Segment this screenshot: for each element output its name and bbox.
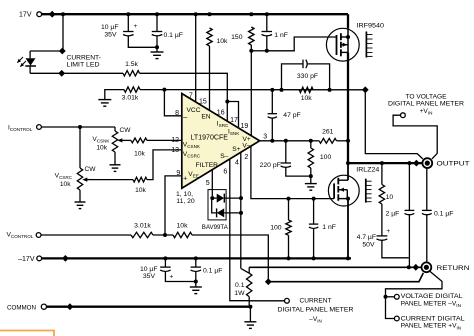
junction dot diode node A [210, 196, 214, 200]
svg-text:10k: 10k [177, 222, 189, 229]
svg-text:–17V: –17V [18, 256, 35, 263]
resistor R 0.1 1W shunt [247, 273, 252, 296]
svg-text:261: 261 [322, 129, 334, 136]
wire Q2 source lead [347, 199, 349, 259]
wire pin4 diag to shunt [241, 268, 249, 273]
wire 47pF top lead [271, 90, 273, 114]
capacitor C 4.7uF/50V [377, 235, 388, 237]
terminal CURRENT DPM+ [394, 316, 399, 321]
svg-text:3.01k: 3.01k [122, 94, 139, 101]
resistor R 3.01k (vctl) [131, 232, 153, 237]
svg-text:4: 4 [235, 159, 239, 166]
ground for VCSNK pot [114, 152, 116, 165]
resistor R 10k (pin12) [131, 138, 147, 143]
wire fb down right [365, 90, 423, 159]
wire branch to pin17 [227, 102, 238, 128]
svg-text:10k: 10k [96, 144, 107, 151]
wire LED cathode lead [29, 66, 31, 73]
svg-text:17: 17 [230, 117, 238, 124]
wire 3.01k to 10k [153, 234, 173, 236]
junction dot ICONTROL [78, 125, 82, 129]
Q1 source stroke [341, 36, 348, 38]
junction dot drain/R261 [346, 139, 350, 143]
svg-text:DIGITAL PANEL METER: DIGITAL PANEL METER [388, 101, 464, 108]
heatsink for Q2 [365, 179, 367, 203]
capacitor 1nF (gate) [309, 223, 318, 225]
capacitor 47pF [268, 113, 277, 115]
terminal ICONTROL [37, 125, 42, 130]
junction dot -17V Q2 source [346, 256, 350, 260]
junction dot rail/R-150 [249, 12, 253, 16]
junction dot gnd star [194, 280, 198, 284]
svg-text:OUTPUT: OUTPUT [437, 161, 470, 168]
resistor R 100 (sense) [308, 148, 313, 168]
svg-text:1 nF: 1 nF [322, 224, 336, 231]
wire 2uF column bottom [408, 214, 410, 267]
svg-text:8: 8 [175, 110, 179, 117]
wire shunt bottom [248, 297, 250, 307]
svg-text:COMMON: COMMON [7, 304, 36, 311]
svg-text:RETURN: RETURN [437, 265, 470, 272]
junction dot rail/C2 [155, 12, 159, 16]
svg-text:330 pF: 330 pF [297, 73, 318, 80]
wire pin9 to vcontrol node [165, 176, 182, 235]
wire LED column [62, 14, 64, 51]
junction dot 150 bottom [249, 49, 253, 53]
wire C 1nF top lead [266, 14, 268, 31]
capacitor C 1nF top [262, 31, 273, 33]
junction diamond on 17V rail [49, 11, 56, 18]
svg-text:100: 100 [320, 154, 332, 161]
Q2 source stroke [338, 198, 348, 200]
svg-text:2 µF: 2 µF [386, 210, 400, 217]
terminal 17V [37, 12, 42, 17]
svg-text:35V: 35V [143, 273, 156, 280]
wire 2uF column top [408, 163, 410, 210]
svg-text:1 nF: 1 nF [274, 32, 288, 39]
wire LED bottom horizontal [30, 72, 62, 74]
wire pin4 column [240, 153, 242, 269]
junction dot rail/LED column [61, 12, 65, 16]
wire pin6 column [230, 159, 249, 301]
capacitor C1 10uF/35V [123, 31, 134, 33]
svg-text:+: + [134, 23, 138, 30]
svg-text:+: + [170, 273, 174, 280]
junction dot 47pF bottom [270, 139, 274, 143]
wire R10k to pin12 [147, 139, 182, 141]
wire drain column x=348 [347, 14, 349, 28]
junction dot EN pins 16/17 [225, 100, 229, 104]
svg-text:10k: 10k [134, 150, 145, 157]
wire +17V top rail [42, 13, 348, 15]
wire to pin 8 [164, 90, 181, 116]
junction dot 220pF top [284, 139, 288, 143]
svg-text:PANEL METER +VIN: PANEL METER +VIN [401, 323, 461, 331]
capacitor 330pF [302, 60, 304, 69]
svg-text:10k: 10k [135, 187, 146, 194]
capacitor C2 0.1uF [152, 31, 163, 33]
junction diamond RETURN [412, 264, 419, 271]
svg-text:19: 19 [241, 123, 249, 130]
wire CSRC column [79, 127, 81, 168]
junction dot 330pF left [280, 88, 284, 92]
junction dot rail/pin7 [194, 12, 198, 16]
junction diamond OUTPUT [413, 160, 420, 167]
Q2 drain stroke [338, 179, 348, 181]
wire R261 to drain [337, 140, 349, 142]
wire snubber mid [381, 204, 383, 236]
potentiometer VCSNK 10k top lead [114, 127, 116, 131]
resistor R 10k (vctl) [173, 232, 192, 237]
svg-text:0.1 µF: 0.1 µF [164, 32, 183, 39]
svg-text:DIGITAL PANEL METER: DIGITAL PANEL METER [278, 307, 354, 314]
heatsink for Q1 [365, 32, 367, 58]
svg-text:CURRENT: CURRENT [300, 298, 332, 305]
wire to VOLTAGE DPM terminal [386, 296, 395, 298]
wire shunt top stub [248, 267, 250, 273]
junction dot 100 top [309, 139, 313, 143]
Q2 channel segments [337, 178, 339, 185]
wire ground row [268, 273, 423, 282]
wire 1nF row to gate [251, 50, 266, 52]
terminal VCONTROL [36, 233, 41, 238]
junction dot output/snubber [380, 161, 384, 165]
wire to R261 [311, 140, 319, 142]
wire C1 bottom lead [128, 35, 157, 47]
junction diamond LED bottom [58, 70, 65, 77]
wire wiper2 to R10k [94, 179, 133, 181]
svg-text:3: 3 [263, 134, 267, 141]
svg-text:6: 6 [223, 168, 227, 175]
wire C0.1uF low bottom [195, 271, 197, 282]
resistor R 100 (gate) lead [288, 199, 290, 220]
Q1 source dot [346, 35, 350, 39]
svg-text:S+: S+ [232, 146, 240, 153]
svg-text:IRF9540: IRF9540 [357, 22, 385, 29]
junction dot 1nF bottom [265, 49, 269, 53]
svg-text:0.1: 0.1 [235, 282, 245, 289]
ground COMMON [249, 307, 251, 322]
svg-text:4.7 µF: 4.7 µF [357, 234, 376, 241]
junction dot rail/C1 [126, 12, 130, 16]
junction diamond -17V [62, 255, 69, 262]
resistor R 10 snubber [379, 185, 384, 205]
resistor R 10k (pin15) [207, 28, 212, 46]
resistor R 100 (sense) lead [310, 141, 312, 148]
wire pin7 column [195, 14, 197, 102]
svg-text:S–: S– [220, 153, 228, 160]
wire to CURRENT DPM+ terminal [386, 297, 395, 319]
svg-text:0.1 µF: 0.1 µF [203, 268, 222, 275]
svg-text:10: 10 [386, 194, 394, 201]
capacitor C 0.1uF out [422, 209, 432, 211]
wire Q2 drain lead [347, 163, 349, 180]
terminal VOLTAGE DPM [394, 294, 399, 299]
svg-text:35V: 35V [104, 32, 117, 39]
wire snubber top lead [381, 163, 383, 184]
wire pin2 column to gate row [251, 146, 334, 198]
junction dot -17V C10u [163, 256, 167, 260]
svg-text:15: 15 [199, 98, 207, 105]
diode D2 (BAV99TA bottom) [224, 212, 241, 214]
capacitor 220pF [281, 162, 291, 164]
wire feedback row [140, 89, 365, 91]
ground for R100/220pF [310, 176, 312, 183]
wire shunt to CURRENT DPM terminal [249, 300, 284, 302]
junction dot COMMON gnd [248, 305, 252, 309]
wire 0.1uF column bottom [426, 214, 428, 262]
svg-text:150: 150 [231, 34, 243, 41]
wire 0.1uF column top [426, 168, 428, 211]
svg-text:1W: 1W [234, 290, 245, 297]
svg-text:PANEL METER –VIN: PANEL METER –VIN [401, 300, 461, 308]
junction dot drain/output row [346, 161, 350, 165]
svg-text:VCC: VCC [187, 107, 201, 114]
junction dot diode D1 cathode [239, 196, 243, 200]
wire 47pF bottom lead [271, 118, 273, 141]
wire wiper to R10k [128, 139, 131, 141]
LED emission arrows [18, 57, 24, 63]
svg-text:100: 100 [270, 224, 282, 231]
svg-text:IRLZ24: IRLZ24 [356, 167, 379, 174]
terminal COMMON [41, 304, 46, 309]
junction dot gate row R100L [287, 197, 291, 201]
wire 1nF gate bottom [313, 228, 315, 258]
junction dot -17V C0.1u [194, 256, 198, 260]
terminal -17V [37, 256, 42, 261]
Q2 bulk arrow stroke [338, 189, 347, 191]
resistor R 10k (pin13) [133, 177, 147, 182]
transistor Q2 IRLZ24 circle [328, 175, 359, 206]
svg-text:CW: CW [120, 127, 132, 134]
svg-text:7: 7 [189, 93, 193, 100]
transistor Q1 IRF9540 circle [326, 28, 359, 61]
svg-text:BAV99TA: BAV99TA [202, 224, 229, 231]
ground for R 3.01k [105, 90, 124, 100]
wire 4.7uF bottom [382, 240, 409, 258]
svg-text:17V: 17V [19, 12, 32, 19]
Q1 channel segments [340, 33, 342, 40]
wire C2 top lead [156, 14, 158, 31]
svg-text:+: + [183, 175, 187, 182]
resistor R 100 (gate) [286, 220, 291, 235]
wire C0.1uF low lead [195, 258, 197, 267]
svg-text:1.5k: 1.5k [125, 61, 138, 68]
wire return fanout [386, 271, 443, 297]
wire R100 bottom [310, 168, 312, 176]
capacitor C 2uF [405, 209, 415, 211]
wire 150 bottom [250, 45, 252, 51]
svg-text:50V: 50V [362, 242, 375, 249]
svg-text:5: 5 [206, 180, 210, 187]
Q1 gate bar [336, 35, 338, 55]
wire R10k to pin13 [147, 150, 182, 180]
junction dot OUTPUT 2uF [407, 161, 411, 165]
wire 10k to pin15 [209, 46, 211, 110]
wire C10uF low bottom [165, 271, 195, 282]
junction dot DPM fan [384, 295, 388, 299]
junction dot rail/C-1nF [265, 12, 269, 16]
wire LED top horizontal [30, 50, 62, 52]
junction dot fb right [328, 88, 332, 92]
LED current-limit diode [26, 58, 36, 65]
junction dot vcontrol node [163, 233, 167, 237]
capacitor 220pF lead [285, 141, 287, 163]
ground star [195, 282, 197, 287]
capacitor 330pF loop wire [282, 64, 304, 90]
potentiometer VCSNK 10k body [112, 131, 117, 152]
svg-text:CURRENT-: CURRENT- [67, 55, 102, 62]
wire 1.5k to EN corner [140, 73, 228, 121]
svg-text:LT1970CFE: LT1970CFE [191, 134, 229, 141]
svg-text:LIMIT LED: LIMIT LED [67, 62, 100, 69]
svg-text:2: 2 [244, 154, 248, 161]
junction diamond fb corner [362, 86, 369, 93]
resistor R 261 [319, 138, 336, 143]
wire LED anode lead [29, 51, 31, 58]
wire pin5 lead [211, 170, 213, 190]
figure border (orange) [0, 331, 54, 336]
svg-text:CW: CW [85, 166, 97, 173]
junction dot -17V R100L [287, 256, 291, 260]
terminal RETURN bullseye [422, 262, 432, 272]
wire voltage DPM loop [393, 115, 437, 159]
terminal CURRENT DPM -VIN [285, 298, 290, 303]
wire RETURN row [249, 266, 421, 268]
svg-text:+: + [386, 228, 390, 235]
terminal TO VOLTAGE DPM [401, 113, 406, 118]
wire COMMON row [47, 306, 251, 308]
wire pin3 output row [260, 140, 311, 142]
op-amp U1 LT1970CFE body [182, 94, 260, 189]
wire -17V rail [42, 257, 351, 259]
resistor R 150 [249, 27, 254, 45]
junction dot gate row 1nF [312, 197, 316, 201]
svg-text:47 pF: 47 pF [283, 112, 300, 119]
wire R100 gate bottom [288, 235, 290, 258]
junction dot C1-C2 ground [155, 45, 159, 49]
wire pin19 column [250, 51, 252, 136]
junction diamond vcontrol/ground row [265, 278, 272, 285]
svg-text:16: 16 [217, 109, 225, 116]
wire C10uF low lead [164, 258, 166, 267]
svg-text:10 µF: 10 µF [101, 24, 119, 31]
diode box BAV99TA [208, 190, 226, 220]
Q1 drain stroke [341, 51, 348, 53]
terminal OUTPUT bullseye [422, 158, 432, 168]
junction dot inverting node [162, 88, 166, 92]
junction dot 47pF top [270, 88, 274, 92]
junction dot -17V 1nF [312, 256, 316, 260]
svg-text:EN: EN [201, 114, 210, 121]
Q2 source dot [346, 197, 350, 201]
junction dot diode D2 anode [239, 211, 243, 215]
wire C1 top lead [127, 14, 129, 31]
svg-text:10k: 10k [301, 95, 313, 102]
wire OUTPUT row [348, 162, 422, 164]
junction diamond COMMON [67, 303, 74, 310]
junction diamond LED top [59, 48, 66, 55]
capacitor 1nF (gate) lead [313, 199, 315, 224]
wire LED to R 1.5k [62, 72, 123, 74]
ground for VCSRC pot [79, 190, 81, 202]
potentiometer VCSRC 10k body [77, 168, 82, 190]
svg-text:10k: 10k [217, 38, 229, 45]
Q1 bulk arrow stroke [341, 44, 348, 46]
Q2 gate bar [333, 183, 335, 198]
wire ICONTROL row [41, 126, 115, 128]
svg-text:10 µF: 10 µF [140, 266, 158, 273]
resistor R 3.01k [124, 87, 140, 92]
wire pin5 inside box [211, 190, 213, 199]
wire vctl to diamond [192, 235, 268, 282]
svg-text:220 pF: 220 pF [260, 162, 281, 169]
svg-text:FILTER: FILTER [196, 162, 218, 169]
svg-text:0.1 µF: 0.1 µF [434, 210, 453, 217]
wire 220pF bottom [286, 167, 311, 176]
junction dot RETURN 2uF [407, 265, 411, 269]
resistor R 10k feedback [299, 87, 313, 92]
resistor R 1.5k [123, 71, 140, 76]
wire C 1nF bottom lead [266, 35, 268, 50]
potentiometer VCSNK wiper arrow [121, 139, 129, 141]
wire C2 bottom lead [156, 35, 158, 47]
potentiometer VCSRC wiper arrow [86, 179, 95, 181]
svg-text:3.01k: 3.01k [134, 222, 151, 229]
svg-text:V–: V– [242, 142, 250, 149]
capacitor C 0.1uF low [191, 266, 202, 268]
capacitor C 10uF/35V low [160, 266, 171, 268]
wire VCONTROL row [41, 234, 131, 236]
svg-text:10k: 10k [60, 181, 71, 188]
ground for C1/C2 [156, 47, 158, 52]
svg-text:CURRENT DIGITAL: CURRENT DIGITAL [401, 315, 465, 322]
junction dot rail/R-10k [208, 12, 212, 16]
svg-text:11, 20: 11, 20 [176, 198, 195, 205]
svg-text:VOLTAGE DIGITAL: VOLTAGE DIGITAL [401, 293, 463, 300]
junction dot R100/220pF gnd [309, 174, 313, 178]
svg-text:TO VOLTAGE: TO VOLTAGE [405, 93, 447, 100]
diode D1 (BAV99TA top) [212, 197, 216, 199]
